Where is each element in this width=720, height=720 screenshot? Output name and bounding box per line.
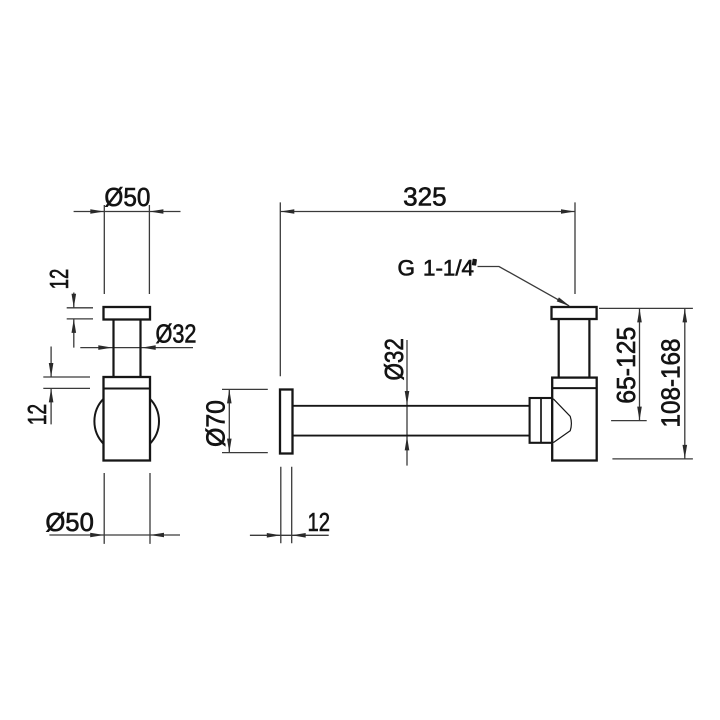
svg-text:12: 12 (22, 404, 52, 425)
svg-text:Ø32: Ø32 (379, 338, 409, 381)
svg-text:325: 325 (403, 182, 447, 212)
svg-text:108-168: 108-168 (656, 339, 686, 428)
svg-text:Ø32: Ø32 (156, 319, 197, 349)
svg-text:12: 12 (44, 269, 74, 290)
svg-text:65-125: 65-125 (611, 327, 641, 404)
svg-text:Ø70: Ø70 (201, 400, 231, 447)
svg-text:G1-1/4: G1-1/4 (398, 256, 475, 281)
svg-text:12: 12 (307, 507, 330, 537)
svg-text:Ø50: Ø50 (104, 182, 150, 212)
svg-text:Ø50: Ø50 (45, 507, 94, 537)
